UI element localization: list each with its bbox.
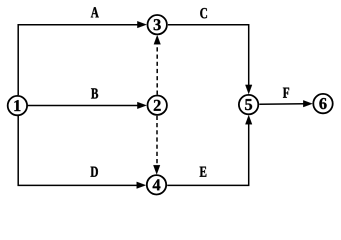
label A xyxy=(91,7,99,17)
arrowhead into node 5 bottom xyxy=(245,115,252,124)
arrowhead into node 3 left side xyxy=(137,21,146,28)
node 1 (circle with number 1) xyxy=(8,96,27,115)
node 4 (circle with number 4) xyxy=(147,175,166,194)
label D xyxy=(91,167,98,177)
arrowhead into node 5 top xyxy=(245,85,252,94)
arrowhead into node 4 top xyxy=(153,165,160,174)
wire node5 to node6 (activity F) xyxy=(259,103,305,105)
wire node4 to node5 (activity E, right then up) xyxy=(167,123,249,185)
dashed dummy wire node2 to node4 xyxy=(156,116,158,167)
arrowhead into node 4 left side xyxy=(137,182,146,189)
arrowhead into node 6 left side xyxy=(303,100,312,107)
label C xyxy=(200,8,207,18)
label F xyxy=(283,88,289,98)
wire node1 to node2 (activity B) xyxy=(28,105,139,107)
node 2 (circle with number 2) xyxy=(148,96,167,115)
node 5 (circle with number 5) xyxy=(239,95,258,114)
wire node1 to node3 (activity A, up then right) xyxy=(18,25,139,96)
node 6 (circle with number 6) xyxy=(313,94,332,113)
label B xyxy=(91,88,98,98)
arrowhead into node 3 bottom xyxy=(154,35,161,44)
wire node3 to node5 (activity C, right then down) xyxy=(168,25,249,86)
label E xyxy=(200,167,207,177)
dashed dummy wire node2 to node3 xyxy=(156,43,158,95)
node 3 (circle with number 3) xyxy=(148,15,167,34)
wire node1 to node4 (activity D, down then right) xyxy=(18,116,138,185)
arrowhead into node 2 left side xyxy=(137,102,146,109)
